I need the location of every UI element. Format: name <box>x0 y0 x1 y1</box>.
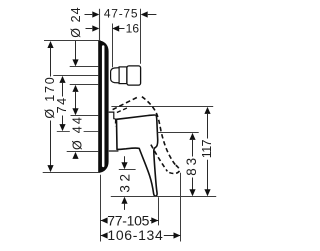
Ø74 dimension line lower segment with down arrow <box>62 116 64 125</box>
hub top extension line (Ø44 top) <box>71 115 99 117</box>
Ø74 top extension line <box>53 75 98 77</box>
wall extension line above plate <box>99 9 101 41</box>
dimension 83 line with up arrow <box>189 133 195 140</box>
dimension 47-75 right arrow <box>148 14 157 16</box>
dimension 32 upper arrow (down) <box>124 156 126 163</box>
lever open position (dashed) tip cap <box>168 165 179 173</box>
83 top extension line <box>158 132 199 134</box>
svg-text:83: 83 <box>184 158 199 176</box>
Ø24 leader line down <box>75 40 77 60</box>
dimension 117 lower segment with down arrow <box>207 160 209 190</box>
Ø74 dimension line upper segment with up arrow <box>59 76 65 83</box>
Ø170 dimension line with up arrow <box>47 41 53 48</box>
knob base extension line (16 mm ref) <box>112 24 114 68</box>
Ø170 dimension line lower segment with down arrow <box>50 121 52 167</box>
knob bottom extension line (Ø24 bottom / chain) <box>70 84 99 86</box>
knob top extension line <box>70 66 99 68</box>
dimension 16 left arrow <box>86 28 93 30</box>
lever open position (dashed) lower edge stub <box>117 108 128 113</box>
svg-text:Ø: Ø <box>71 140 85 150</box>
escutcheon plate (side profile, Ø170) <box>98 41 108 173</box>
svg-text:44: 44 <box>71 117 85 133</box>
Ø170 bottom extension line <box>43 172 101 174</box>
dimension 47-75 left arrow <box>85 14 93 16</box>
dashed-lever tip extension line <box>180 173 182 242</box>
wall extension line below plate <box>100 175 102 242</box>
svg-text:Ø 24: Ø 24 <box>69 7 83 37</box>
Ø44 bottom arrow (up onto hub bottom line) <box>72 152 78 159</box>
lever tip extension line below datum <box>158 197 160 225</box>
Ø74 bottom extension line (gapped around 44 text) <box>57 131 70 133</box>
dimension 16 right arrow <box>119 28 125 30</box>
knob tip extension line (47-75 ref) <box>140 9 142 64</box>
Ø24 top arrow (down onto knob top line) <box>72 59 78 66</box>
dimension 32 lower arrow (up onto datum) <box>121 197 127 204</box>
lever open position (dashed) upper edge rising to apex <box>113 96 140 109</box>
lever open position (dashed) inner edge <box>151 145 167 172</box>
dimension 117 line with up arrow <box>204 107 210 114</box>
dimension 77-105 line and arrows <box>100 220 106 222</box>
lever open position (dashed) outer edge descending <box>142 97 176 166</box>
handle hub collar between plate and lever <box>109 112 119 151</box>
plate front-back white slit <box>102 45 105 167</box>
chain dimension line between knob-bottom and hub-top with outward arrows <box>72 85 78 92</box>
diverter knob cap (Ø24) <box>127 66 141 85</box>
svg-text:Ø 170: Ø 170 <box>43 77 57 118</box>
svg-text:47-75: 47-75 <box>104 7 138 21</box>
valve centerline extension (117 top ref) <box>111 106 213 108</box>
lever open position (dashed) left edge stub <box>114 119 116 126</box>
svg-text:16: 16 <box>126 21 140 35</box>
dimension 106-134 line and arrows <box>100 235 106 237</box>
diverter knob middle cylinder <box>119 67 127 84</box>
svg-text:77-105: 77-105 <box>107 212 149 228</box>
diverter knob ring (inner, torus profile) <box>111 68 120 83</box>
svg-text:32: 32 <box>117 174 132 193</box>
Ø170 top extension line <box>44 40 101 42</box>
lever handle with grip blade (closed position, solid) <box>117 115 158 196</box>
svg-text:106-134: 106-134 <box>107 227 163 243</box>
svg-text:117: 117 <box>200 139 214 158</box>
lever tip extension line (32 top ref) <box>119 169 136 171</box>
dimension 83 lower segment with down arrow <box>192 178 194 190</box>
hub bottom extension line (Ø44 bottom) <box>67 151 99 153</box>
lower datum line <box>111 196 216 198</box>
